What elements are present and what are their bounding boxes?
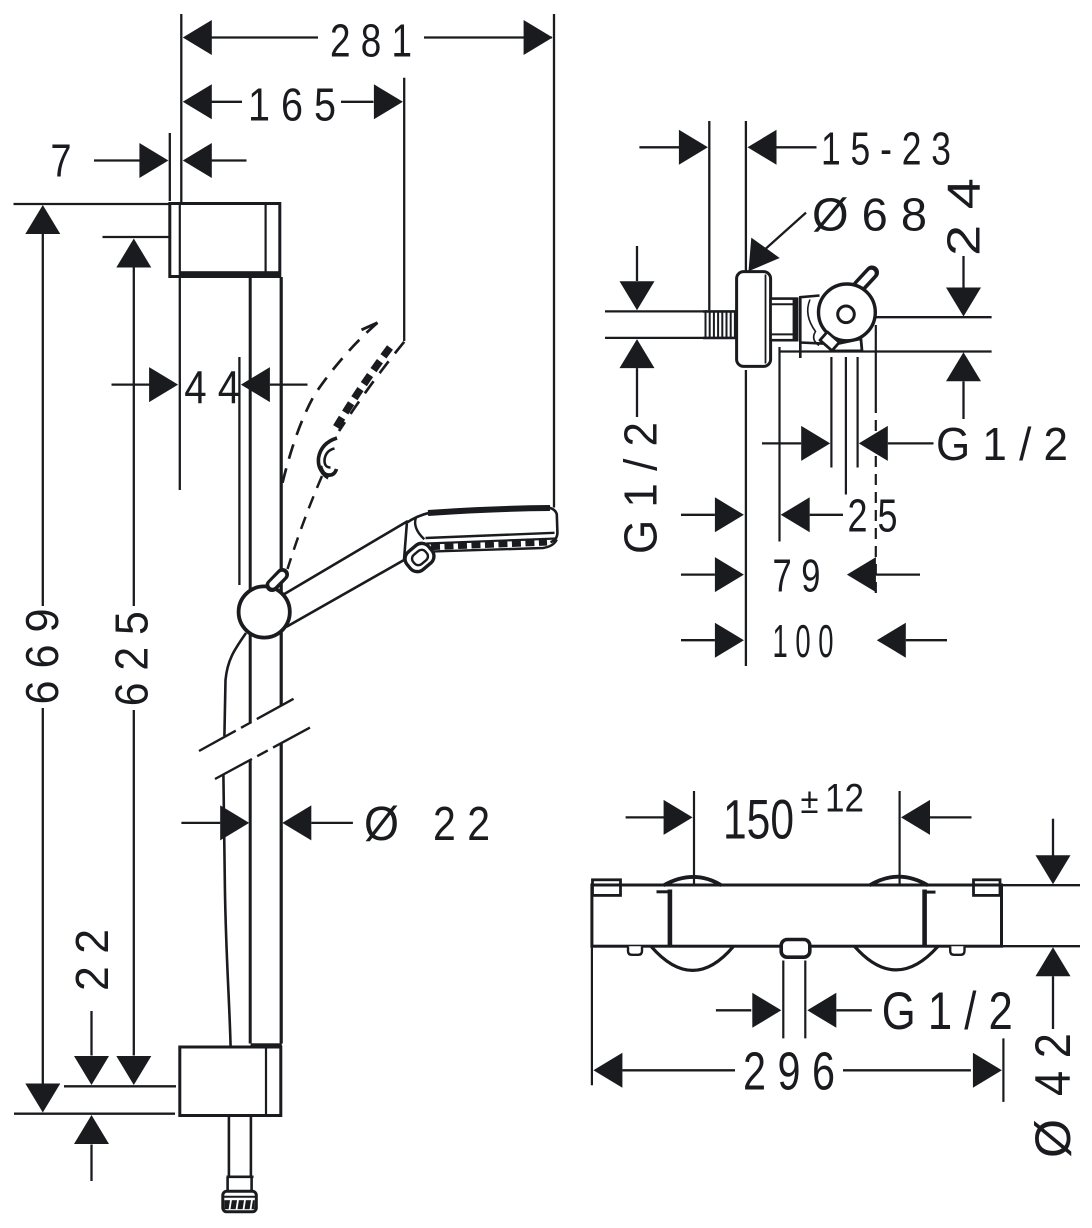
extension line bar end bottom (dims 625/22) [64,1085,176,1087]
value label 25 [848,490,898,542]
extension line outlet centre (dim 25) [778,347,780,542]
dim 669 vertical line with arrowheads [25,205,60,1113]
valve body (side view circle) [819,284,876,341]
svg-text:1 6 5: 1 6 5 [248,79,336,131]
dim G1/2 left vertical arrows and tails [620,246,655,417]
shower outlet spout (tilted) [820,332,839,351]
bottom bracket inner right edge [265,1047,267,1116]
svg-text:1 5 - 2 3: 1 5 - 2 3 [821,123,951,175]
dim 22 arrows and tails [74,1011,109,1181]
hand shower head face line lower [427,539,557,544]
value label 281 [330,15,412,67]
bottom bracket thick top edge (bar end) [251,1043,282,1048]
supply pipe (side view) [605,311,703,338]
value label 165 [248,79,336,131]
hose ferrule collar [227,1177,254,1191]
svg-text:2 2: 2 2 [433,798,490,851]
dim 25 arrows and tails [681,497,843,532]
dashed hand shower head top cap [362,323,378,330]
dim 165 line with arrowheads [183,84,403,119]
extension line for wall-plate left edge (dim 7) [169,133,171,201]
svg-text:7 9: 7 9 [773,550,821,602]
extension line valve front face (dim 15-23) [708,121,710,310]
holder clip loop inner [410,548,430,567]
extension line outlet right (dim G1/2) [804,961,806,1039]
wall line (side view) [745,121,747,666]
extension line body bottom (dim diameter 42) [1002,945,1080,947]
extension line body top (dim diameter 42) [1002,884,1080,886]
dashed hand shower (raised position) top edge [282,323,378,487]
thermostat body (front view) [592,885,1002,946]
value label plus-minus 12 superscript [801,777,865,822]
value label 669 (rotated) [16,609,68,705]
value label 100 [773,615,834,667]
dashed hose (raised position) to pivot [288,476,323,569]
dim G1/2 right arrows and tails [762,426,934,461]
value label diameter 22 [364,798,490,851]
wall bracket thick bottom edge [180,271,280,277]
svg-text:2 4: 2 4 [938,178,990,256]
threaded nipple with hatching [703,311,737,338]
pipe break symbol (lower cut line) [215,727,311,779]
value label 625 (rotated) [106,611,158,706]
wall bracket (top holder) outline [170,204,280,277]
wall flange (diameter 68 escutcheon) [737,272,771,367]
svg-text:12: 12 [825,777,864,821]
extension line right (shower head outer edge, dim 281) [553,14,555,508]
value label 22 (rotated) [66,929,118,991]
svg-text:±: ± [801,780,819,821]
valve body bracket between hex and body [800,296,823,359]
left end cap [593,880,621,896]
extension line connection centre (dim 79) [845,357,847,495]
extension line bracket top inner (dim 625) [103,236,170,238]
label diameter 68 [812,189,927,241]
hose connection nut [223,1191,256,1212]
value label G1/2 left (rotated) [615,422,667,554]
svg-text:Ø 6 8: Ø 6 8 [812,189,927,241]
hex adapter nut [771,299,799,341]
shower hose (upper run from pivot) [223,633,246,1047]
dim 44 arrows and tails [112,367,308,402]
extension line bracket top (dim 669) [14,203,170,205]
extension line bracket bottom (dims 669/22) [14,1113,175,1115]
bottom bracket outline [180,1047,281,1116]
hose below bottom bracket [229,1116,251,1177]
value label 44 [184,361,240,413]
dim diameter 22 arrows and tails [181,805,353,840]
holder hook curl at dashed shower grip [318,438,337,478]
svg-text:2 2: 2 2 [66,929,118,991]
hand shower head outline [406,507,558,542]
hand shower spray-face nozzles [431,542,547,547]
union nut right bottom arc [855,946,939,970]
slide bar left edge [249,277,252,1044]
svg-text:6 2 5: 6 2 5 [106,611,158,706]
dim 24 vertical arrows and tails [946,256,981,419]
svg-text:2 8 1: 2 8 1 [330,15,412,67]
svg-text:4 4: 4 4 [184,361,240,413]
central shower outlet [781,940,810,958]
dim 100 arrows and tails [681,623,947,658]
pipe break symbol (upper cut line) [199,698,295,751]
right end cap [974,880,1001,896]
extension line left union centre (dim 150) [693,791,695,887]
dim 625 vertical line with arrowheads [116,239,151,1086]
extension line wall reference below bracket (dim 44) [179,277,181,490]
value label 24 (rotated) [938,178,990,256]
extension line body right (dim 296) [1002,1038,1004,1102]
temperature knob stem [860,273,873,287]
dim 79 arrows and tails [681,557,920,592]
extension line dashed centreline (dim 100) [875,325,877,593]
value label 15 - 23 [821,123,951,175]
washer arcs behind valve body [808,300,819,346]
extension line outlet left (dim G1/2) [782,961,784,1039]
dim diameter 42 arrows and tails [1036,819,1071,1029]
svg-text:G 1 / 2: G 1 / 2 [615,422,667,554]
dashed hand shower spray-face nozzles [335,348,391,431]
value label 79 [773,550,821,602]
dim G1/2 bottom arrows and tails [716,993,872,1028]
holder clip loop outer (at handle root) [401,540,437,576]
valve foot bracket [833,339,863,351]
value label 296 [743,1042,835,1102]
pivot holder hose nub [272,575,283,586]
valve axis small circle [838,306,855,323]
svg-text:1 0 0: 1 0 0 [773,615,834,667]
dim 7 arrows and tails [94,143,247,178]
union nut right top arc [870,877,929,886]
value label 7 [51,135,72,187]
wall bracket inner left edge [179,204,181,276]
svg-text:2 9 6: 2 9 6 [743,1042,835,1102]
extension line dashed-head top (dim 165) [403,78,405,341]
svg-text:4 2: 4 2 [1025,1033,1081,1096]
hand shower head dark top band [428,508,550,513]
dim 296 line with arrowheads [593,1053,1002,1088]
svg-text:Ø: Ø [364,798,399,851]
outlet line upper (side view) [875,316,992,318]
union nut left bottom arc [651,946,734,970]
dashed hand shower (raised position) bottom edge [339,342,404,431]
left boss below body [628,946,642,955]
value label G1/2 bottom [882,982,1013,1041]
wall bracket inner right edge [265,204,267,276]
pivot holder ball [239,586,290,637]
extension line body left (dim 296) [591,946,593,1085]
union nut left top arc [664,877,722,885]
dim 15-23 arrows and tails [639,130,816,165]
right boss below body [950,946,964,955]
outlet line lower (side view) [780,350,992,352]
dim 281 line with arrowheads [183,20,553,55]
shower slide-bar set: dimension extension line from bar centre (top) [180,14,182,203]
extension line holder left edge (dim 44) [238,357,240,585]
svg-text:Ø: Ø [1025,1119,1081,1158]
hand shower spray-face bottom edge [430,540,557,552]
hand shower neck ring [415,518,424,540]
svg-text:G 1 / 2: G 1 / 2 [882,982,1013,1041]
value label diameter 42 (rotated) [1025,1033,1081,1158]
hand shower handle (solid, horizontal position) [281,522,407,627]
svg-text:6 6 9: 6 6 9 [16,609,68,705]
extension line right union centre (dim 150) [898,791,900,887]
leader line and arrowhead for diameter 68 [749,213,807,272]
svg-text:2 5: 2 5 [848,490,898,542]
value label 150 [723,787,794,850]
union nut left edge thick line and tick [657,890,670,946]
extension line connection right (dim G1/2) [856,357,858,468]
hand shower head face line upper [426,533,555,538]
svg-text:G 1 / 2: G 1 / 2 [936,418,1068,470]
extension line connection left (dim G1/2) [830,357,832,468]
value label G1/2 right [936,418,1068,470]
union nut right edge thick line and tick [925,890,936,946]
dim 150 arrows and tails [626,800,972,835]
svg-text:7: 7 [51,135,72,187]
svg-text:150: 150 [723,787,794,850]
slide bar right edge [280,277,283,1044]
